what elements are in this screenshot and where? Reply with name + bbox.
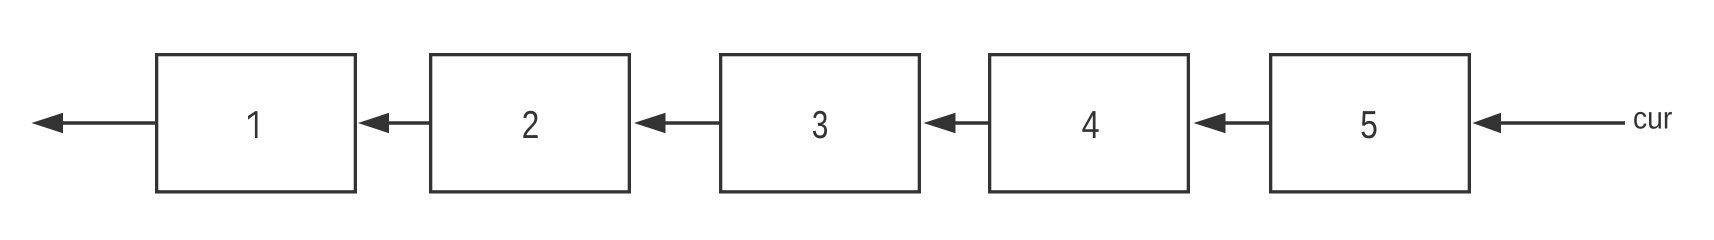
wire: arrow node 4 -> node 3 [924,113,990,133]
wire: arrow node 3 -> node 2 [634,113,720,133]
label cur (pointer name) [1634,112,1672,129]
wire: arrow node 2 -> node 1 [358,113,430,133]
node 1 (list cell) [157,55,356,192]
node 3 (list cell) [721,55,920,192]
wire: arrow node 5 -> node 4 [1194,113,1271,133]
node 5 (list cell) [1271,55,1470,192]
node 2 (list cell) [431,55,630,192]
wire: arrow out of node 1 to the left [32,113,157,133]
wire: arrow cur -> node 5 [1473,113,1626,133]
node 4 (list cell) [990,55,1189,192]
